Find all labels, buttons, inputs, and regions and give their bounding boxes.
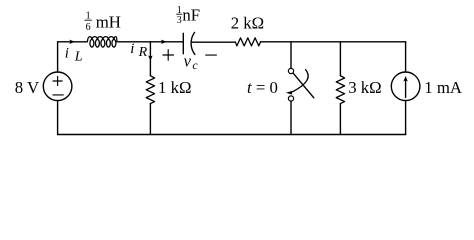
current source I1 arrow shaft: [405, 81, 407, 98]
wire 3k branch lower: [339, 104, 341, 135]
resistor R3 3k zigzag: [336, 76, 344, 104]
wire top rail inductor-to-capacitor: [117, 41, 183, 43]
voltage source V1 plus sign: [53, 76, 62, 85]
current source I1 arrow head: [403, 76, 407, 82]
svg-text:2 kΩ: 2 kΩ: [231, 14, 264, 33]
resistor R2 2k zigzag: [235, 38, 260, 46]
wire 1k branch lower: [149, 104, 151, 135]
inductor L1 loop 5: [112, 39, 116, 47]
svg-text:1 mA: 1 mA: [424, 78, 462, 97]
wire left rail upper: [57, 42, 59, 72]
svg-text:R: R: [138, 45, 148, 60]
svg-text:v: v: [184, 52, 192, 71]
arrow i_L head: [69, 40, 75, 44]
svg-text:t = 0: t = 0: [247, 78, 278, 97]
voltage source V1 minus sign: [53, 94, 63, 96]
svg-text:mH: mH: [96, 12, 121, 31]
fraction bar 1/3: [177, 13, 182, 15]
switch terminal top circle: [288, 68, 293, 73]
wire right rail lower: [405, 101, 407, 135]
capacitor C1 left plate: [182, 33, 184, 54]
switch closing arc: [293, 70, 309, 92]
svg-text:i: i: [65, 45, 69, 61]
svg-text:nF: nF: [182, 6, 200, 25]
switch terminal bottom circle: [288, 96, 293, 101]
svg-text:1 kΩ: 1 kΩ: [158, 78, 191, 97]
svg-text:L: L: [74, 49, 83, 64]
current source I1 circle: [391, 72, 420, 101]
wire left rail lower: [57, 101, 59, 135]
arrow into capacitor head: [161, 40, 167, 44]
arrow i_R head: [148, 56, 152, 62]
switch blade: [293, 73, 314, 98]
svg-text:3 kΩ: 3 kΩ: [348, 78, 381, 97]
svg-text:c: c: [192, 58, 198, 72]
wire bottom rail: [58, 134, 406, 136]
capacitor minus polarity sign: [206, 54, 217, 56]
wire top rail capacitor-to-2k: [192, 41, 235, 43]
fraction bar 1/6: [85, 19, 92, 21]
wire switch branch lower: [290, 101, 292, 134]
capacitor plus polarity sign: [163, 50, 174, 61]
voltage source V1 circle: [43, 72, 72, 101]
resistor R1 1k zigzag: [146, 76, 154, 104]
wire 3k branch upper: [339, 42, 341, 76]
svg-text:3: 3: [177, 15, 182, 26]
wire 1k branch upper: [149, 42, 151, 76]
inductor L1 loop 1: [90, 39, 94, 47]
wire right rail upper: [405, 42, 407, 72]
capacitor C1 right curved plate: [191, 32, 195, 54]
wire top rail left segment: [58, 41, 88, 43]
wire top rail 2k-to-right corner: [261, 41, 406, 43]
inductor L1 loop 2: [95, 39, 99, 47]
svg-text:i: i: [130, 41, 134, 57]
inductor L1 humps: [87, 37, 117, 42]
svg-text:8 V: 8 V: [15, 78, 39, 97]
switch closing arrow head: [286, 91, 293, 95]
svg-text:6: 6: [86, 22, 91, 33]
wire switch branch upper: [290, 42, 292, 69]
inductor L1 loop 3: [101, 39, 105, 47]
svg-text:1: 1: [86, 10, 91, 21]
inductor L1 loop 4: [106, 39, 110, 47]
